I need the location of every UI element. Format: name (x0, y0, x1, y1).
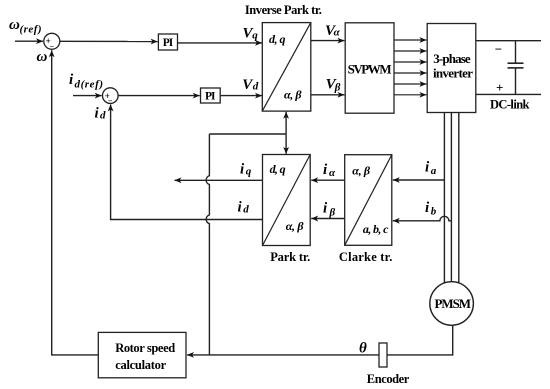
wire DC-link top rail (476, 40, 541, 42)
label i-beta (323, 201, 336, 219)
svg-text:θ: θ (359, 341, 367, 357)
block Clarke transform U3 (345, 155, 392, 246)
svg-text:a, b, c: a, b, c (363, 222, 389, 236)
svg-text:ω: ω (37, 49, 48, 65)
wire id output feedback to S2 (111, 104, 262, 219)
label omega feedback (37, 49, 48, 65)
label Encoder (367, 372, 410, 386)
wire theta to Park top (285, 134, 287, 154)
svg-text:Rotor speed: Rotor speed (115, 341, 175, 355)
label iq (240, 162, 252, 178)
svg-text:q: q (246, 166, 252, 178)
svg-text:d, q: d, q (270, 162, 286, 176)
svg-text:d: d (253, 81, 259, 93)
svg-text:Encoder: Encoder (367, 372, 410, 386)
svg-text:b: b (431, 206, 437, 218)
wire ia to Clarke (393, 179, 445, 181)
wire S2 to PI2 (118, 95, 200, 97)
svg-text:DC-link: DC-link (490, 98, 530, 112)
svg-text:Clarke tr.: Clarke tr. (339, 250, 393, 264)
svg-text:β: β (334, 81, 341, 93)
label DC-link (490, 98, 530, 112)
summing junction S2 (id error) (103, 88, 119, 106)
svg-text:ω: ω (9, 17, 20, 33)
wire PMSM to encoder and rotor speed calculator (187, 325, 453, 355)
wire SVPWM to inverter gate 3 (394, 61, 426, 63)
svg-text:α, β: α, β (286, 219, 305, 233)
wire phase c inverter to PMSM (458, 113, 460, 284)
svg-text:PI: PI (163, 37, 174, 49)
label minus (495, 41, 502, 56)
wire ib to Clarke (hop over phase a line) (393, 216, 452, 220)
PI controller PI2 (201, 88, 221, 103)
label Vd (242, 77, 258, 93)
capacitor C1 (DC-link) (508, 41, 524, 95)
svg-text:+: + (496, 80, 503, 95)
label i-alpha (323, 162, 336, 179)
wire Vbeta to SVPWM (311, 94, 345, 96)
block 3-phase inverter (427, 24, 476, 113)
svg-text:PMSM: PMSM (435, 296, 472, 311)
svg-text:inverter: inverter (433, 65, 473, 80)
encoder sensor E1 (379, 343, 387, 367)
summing junction S1 (speed error) (44, 33, 60, 51)
wire theta to Inverse Park bottom (285, 112, 287, 134)
label theta (359, 341, 367, 357)
wire S1 to PI1 (60, 40, 158, 42)
label Vq (243, 25, 259, 41)
label ia (425, 160, 437, 178)
svg-text:calculator: calculator (115, 358, 166, 372)
svg-text:PI: PI (205, 90, 216, 102)
svg-text:d: d (243, 203, 249, 215)
block SVPWM (345, 23, 394, 113)
wire SVPWM to inverter gate 2 (394, 50, 426, 52)
wire Valpha to SVPWM (311, 40, 345, 42)
svg-text:−: − (50, 42, 55, 51)
motor PMSM M1 (430, 282, 474, 326)
wire SVPWM to inverter gate 5 (394, 83, 426, 85)
wire SVPWM to inverter gate 6 (394, 94, 426, 96)
label id (park output) (238, 200, 250, 216)
wire theta vertical trunk (hops over iq and id lines) (206, 134, 209, 355)
svg-text:Inverse Park tr.: Inverse Park tr. (245, 3, 322, 17)
wire PI1 to Inverse Park (Vq) (178, 42, 263, 44)
svg-text:α, β: α, β (352, 163, 371, 177)
wire PI2 to Inverse Park (Vd) (220, 95, 262, 97)
wire omega(ref) input (15, 40, 43, 42)
svg-text:α: α (329, 167, 336, 179)
wire phase b inverter to PMSM (450, 113, 452, 282)
wire SVPWM to inverter gate 4 (394, 72, 426, 74)
label Vbeta (326, 77, 341, 94)
wire i-beta Clarke to Park (311, 218, 345, 220)
wire speed feedback to S1 (52, 50, 99, 355)
label Park tr. (270, 250, 310, 264)
wire iq output (175, 179, 263, 181)
PI controller PI1 (158, 34, 177, 50)
label id(ref) (69, 72, 103, 91)
svg-text:β: β (329, 207, 336, 219)
svg-text:(ref): (ref) (20, 24, 42, 36)
svg-text:3-phase: 3-phase (433, 51, 471, 66)
svg-text:q: q (252, 30, 258, 42)
svg-text:d(ref): d(ref) (75, 79, 104, 91)
label id feedback (under S2) (95, 106, 107, 122)
label ib (425, 200, 437, 218)
svg-text:Park tr.: Park tr. (270, 250, 310, 264)
label Clarke tr. (339, 250, 393, 264)
wire SVPWM to inverter gate 1 (394, 39, 426, 41)
label Inverse Park tr. title (245, 3, 322, 17)
svg-text:d: d (100, 109, 106, 121)
svg-text:α, β: α, β (284, 88, 302, 102)
svg-text:−: − (495, 41, 502, 56)
label Valpha (325, 23, 341, 39)
wire phase a inverter to PMSM (443, 113, 445, 284)
wire i-alpha Clarke to Park (311, 179, 345, 181)
svg-text:α: α (334, 27, 341, 39)
wire DC-link bottom rail (476, 93, 541, 95)
label plus (496, 80, 503, 95)
label omega(ref) (9, 17, 42, 36)
svg-text:d, q: d, q (269, 32, 286, 46)
wire theta branch horizontal (209, 133, 286, 135)
block Inverse Park transform U1 (262, 23, 311, 112)
block Rotor speed calculator (98, 332, 186, 377)
wire id(ref) input (73, 95, 102, 97)
block Park transform U2 (263, 155, 311, 246)
svg-text:a: a (431, 165, 437, 177)
svg-text:−: − (108, 96, 113, 105)
svg-text:SVPWM: SVPWM (348, 61, 392, 76)
